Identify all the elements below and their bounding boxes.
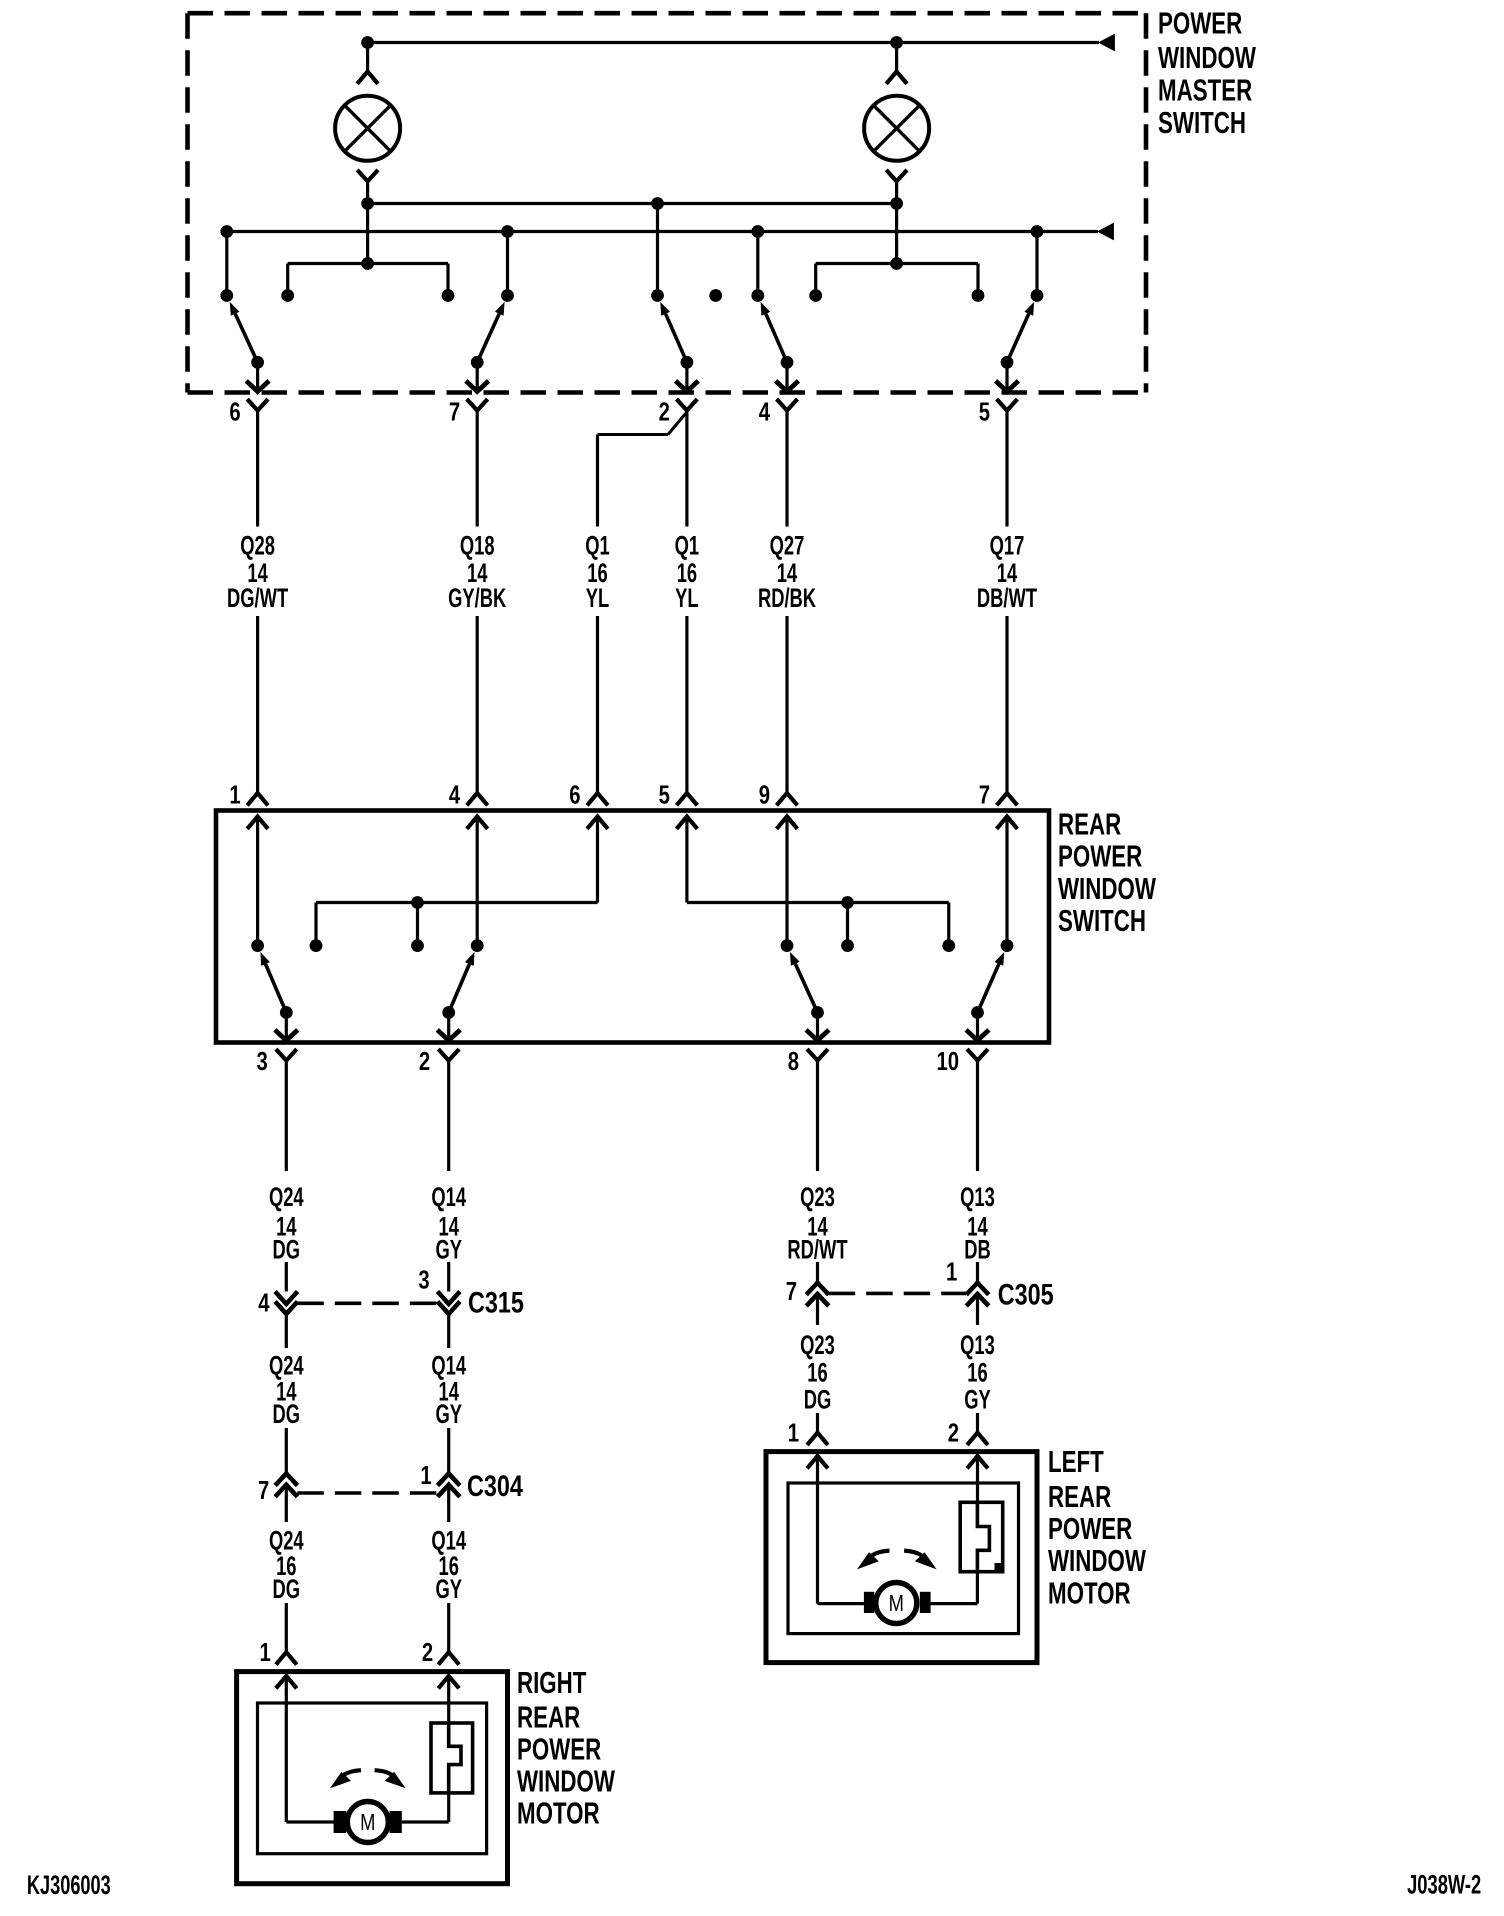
svg-text:9: 9 bbox=[759, 780, 770, 809]
svg-text:SWITCH: SWITCH bbox=[1058, 903, 1146, 937]
svg-text:SWITCH: SWITCH bbox=[1158, 105, 1246, 139]
wire Q23 14 RD/WT segment A bbox=[816, 1061, 819, 1172]
power window master switch box (dashed) bbox=[188, 13, 1147, 392]
svg-text:1: 1 bbox=[420, 1461, 431, 1490]
switch pivot dot pin 6 bbox=[251, 356, 264, 369]
rear switch contact dot x=417.5 bbox=[411, 939, 424, 952]
pin 5 connector inside rear switch bbox=[677, 817, 698, 829]
junction lamp1 bottom bbox=[361, 197, 374, 210]
svg-text:GY: GY bbox=[435, 1234, 462, 1264]
arrow common bus (right) bbox=[1097, 223, 1114, 241]
label Q27 14 RD/BK bbox=[758, 530, 816, 613]
right motor terminal right bbox=[390, 1811, 402, 1833]
contact dot x=448 bbox=[442, 289, 455, 302]
pin 8 exit arrow at rear box border bbox=[806, 1013, 829, 1041]
rear switch contact dot x=787 bbox=[781, 939, 794, 952]
wire Q1 16 YL upper segment bbox=[685, 411, 688, 527]
label Q28 14 DG/WT bbox=[227, 530, 288, 613]
pin 4 exit arrow at border bbox=[776, 362, 799, 391]
contact dot x=815.7 bbox=[809, 289, 822, 302]
pin 1 connector above left motor bbox=[807, 1433, 828, 1445]
svg-text:DG: DG bbox=[273, 1234, 301, 1264]
wire Q1 lower segment bbox=[685, 616, 688, 793]
wire Q14 segment D bbox=[447, 1428, 450, 1474]
svg-text:DB/WT: DB/WT bbox=[977, 583, 1037, 613]
left motor rotation arrows bbox=[857, 1551, 937, 1570]
svg-text:M: M bbox=[360, 1810, 375, 1836]
svg-text:REAR: REAR bbox=[517, 1700, 580, 1734]
rear power window switch box bbox=[216, 811, 1049, 1043]
junction mid rail bbox=[651, 197, 664, 210]
pin 4 connector below border bbox=[777, 399, 798, 410]
connector C304 left half (pin 7) bbox=[275, 1474, 297, 1497]
svg-text:Q13: Q13 bbox=[960, 1329, 995, 1359]
rear switch contact dot x=257.6 bbox=[251, 939, 264, 952]
pin 6 exit arrow at border bbox=[246, 362, 269, 391]
switch blade pin 7 bbox=[477, 302, 504, 362]
pin 10 exit arrow at rear box border bbox=[966, 1013, 989, 1041]
switch pivot dot pin 2 bbox=[681, 356, 694, 369]
svg-text:Q18: Q18 bbox=[460, 530, 495, 560]
label LEFT REAR POWER WINDOW MOTOR bbox=[1048, 1444, 1146, 1610]
motor M1 (right rear) bbox=[347, 1802, 388, 1843]
pin 5 connector above rear switch bbox=[677, 793, 698, 805]
wire pin5 rail right bbox=[687, 817, 949, 946]
wire pin1 to contact bbox=[256, 817, 259, 946]
svg-text:MASTER: MASTER bbox=[1158, 73, 1252, 107]
pin 10 connector below rear box bbox=[967, 1049, 988, 1060]
wire Q17 14 DB/WT upper segment bbox=[1005, 411, 1008, 527]
pin 2 exit arrow at border bbox=[676, 362, 699, 391]
svg-text:WINDOW: WINDOW bbox=[1158, 41, 1256, 75]
contact dot x=978 bbox=[972, 289, 985, 302]
label Q24 16 DG bbox=[269, 1525, 304, 1604]
svg-text:RIGHT: RIGHT bbox=[517, 1665, 587, 1699]
rear switch contact dot x=847.5 bbox=[841, 939, 854, 952]
connector C305 left half (pin 7) bbox=[806, 1283, 828, 1306]
svg-text:GY: GY bbox=[964, 1384, 991, 1414]
label Q17 14 DB/WT bbox=[977, 530, 1037, 613]
svg-text:WINDOW: WINDOW bbox=[1048, 1543, 1146, 1577]
wire Q23 16 DG segment C bbox=[816, 1295, 819, 1325]
wire Q14 14 GY segment A bbox=[447, 1061, 450, 1172]
connector C304 right half (pin 1) bbox=[438, 1474, 460, 1497]
connector C304 dashed link bbox=[297, 1491, 437, 1495]
svg-text:4: 4 bbox=[759, 397, 770, 426]
wire Q27 14 RD/BK upper segment bbox=[785, 411, 788, 527]
pin 1 connector above rear switch bbox=[247, 793, 268, 805]
contact dot x=657.5 bbox=[651, 289, 664, 302]
svg-text:C304: C304 bbox=[467, 1469, 523, 1502]
wire Q28 lower segment bbox=[256, 616, 259, 793]
svg-text:GY/BK: GY/BK bbox=[448, 583, 506, 613]
connector C315 left half (pin 4) bbox=[275, 1292, 297, 1314]
svg-text:DG: DG bbox=[273, 1574, 301, 1604]
svg-text:7: 7 bbox=[449, 397, 460, 426]
right motor terminal left bbox=[334, 1811, 347, 1833]
switch blade pin 6 bbox=[230, 302, 258, 362]
wire common bus bbox=[227, 230, 1098, 233]
svg-text:Q28: Q28 bbox=[240, 530, 275, 560]
pin 7 connector inside rear switch bbox=[997, 817, 1018, 829]
svg-text:6: 6 bbox=[569, 780, 580, 809]
svg-text:RD/BK: RD/BK bbox=[758, 583, 816, 613]
svg-text:2: 2 bbox=[422, 1638, 433, 1667]
pin 3 exit arrow at rear box border bbox=[275, 1013, 298, 1041]
svg-text:POWER: POWER bbox=[1048, 1511, 1132, 1545]
wire left motor pin2 to motor bbox=[931, 1456, 978, 1604]
left motor terminal left bbox=[864, 1592, 874, 1613]
svg-text:REAR: REAR bbox=[1048, 1479, 1111, 1513]
junction at lamp 1 top bbox=[361, 36, 374, 49]
svg-text:LEFT: LEFT bbox=[1048, 1444, 1104, 1478]
pin 7 connector below border bbox=[467, 399, 488, 410]
right motor inner housing bbox=[258, 1703, 487, 1854]
switch blade pin 5 bbox=[1007, 302, 1034, 362]
svg-text:DB: DB bbox=[964, 1234, 991, 1264]
svg-text:DG/WT: DG/WT bbox=[227, 583, 288, 613]
wire pin6 rail left bbox=[316, 817, 598, 946]
svg-text:M: M bbox=[889, 1591, 904, 1617]
wire pin7 to contact bbox=[1005, 817, 1008, 946]
label Q14 14 GY bbox=[431, 1182, 466, 1265]
switch pivot dot pin 7 bbox=[471, 356, 484, 369]
svg-text:MOTOR: MOTOR bbox=[1048, 1576, 1131, 1610]
junction rail left bbox=[411, 896, 424, 909]
lamp DS1 (illumination) bbox=[335, 96, 400, 161]
label Q13 16 GY bbox=[960, 1329, 995, 1414]
svg-text:Q27: Q27 bbox=[770, 530, 805, 560]
connector C315 right half (pin 3) bbox=[438, 1292, 460, 1314]
wire pin4 to contact bbox=[476, 817, 479, 946]
wire top supply bus bbox=[368, 41, 1099, 44]
pin 9 connector above rear switch bbox=[777, 793, 798, 805]
svg-text:WINDOW: WINDOW bbox=[1058, 871, 1156, 905]
svg-text:POWER: POWER bbox=[1158, 6, 1242, 40]
pin 1 connector inside rear switch bbox=[247, 817, 268, 829]
rear switch blade pin 10 bbox=[978, 952, 1005, 1013]
svg-text:POWER: POWER bbox=[1058, 839, 1142, 873]
wire Q23 segment B bbox=[816, 1262, 819, 1283]
wire Q13 16 GY segment C bbox=[976, 1295, 979, 1325]
pin 9 connector inside rear switch bbox=[777, 817, 798, 829]
svg-text:4: 4 bbox=[258, 1288, 269, 1317]
wire Q18 14 GY/BK upper segment bbox=[476, 411, 479, 527]
svg-text:YL: YL bbox=[675, 583, 698, 613]
svg-text:GY: GY bbox=[435, 1399, 462, 1429]
wire Q14 14 GY segment C bbox=[447, 1312, 450, 1348]
wire Q27 lower segment bbox=[785, 616, 788, 793]
label Q1 16 YL bbox=[675, 530, 700, 613]
rear switch contact dot x=948.75 bbox=[942, 939, 955, 952]
pin 2 connector inside left motor bbox=[967, 1456, 988, 1468]
motor M2 (left rear) bbox=[876, 1583, 917, 1624]
wire Q1 lower segment bbox=[596, 616, 599, 793]
label Q23 16 DG bbox=[800, 1329, 835, 1414]
right motor circuit breaker bbox=[431, 1723, 473, 1793]
label REAR POWER WINDOW SWITCH bbox=[1058, 807, 1156, 938]
svg-text:8: 8 bbox=[788, 1047, 799, 1076]
pin 1 connector above right motor bbox=[276, 1652, 297, 1664]
wire bus dropper x=757.8 bbox=[756, 232, 759, 296]
wire Q23 segment D bbox=[816, 1413, 819, 1433]
wire lamp bottom rail bbox=[368, 202, 897, 205]
junction common bus x=757.8 bbox=[751, 225, 764, 238]
wire Q1 16 YL upper segment bbox=[596, 435, 599, 527]
wire Q28 14 DG/WT upper segment bbox=[256, 411, 259, 527]
pin 8 connector below rear box bbox=[807, 1049, 828, 1060]
wire left motor pin1 to motor bbox=[818, 1456, 865, 1604]
svg-text:KJ306003: KJ306003 bbox=[27, 1869, 111, 1900]
pin 2 connector above right motor bbox=[438, 1652, 459, 1664]
arrow to supply (right) bbox=[1098, 34, 1115, 52]
rear switch blade pin 2 bbox=[449, 952, 475, 1013]
wire lamp2 to contact tee bbox=[816, 204, 978, 296]
lamp DS2 (illumination) bbox=[864, 96, 929, 161]
lamp DS1 connector top bbox=[357, 43, 378, 84]
svg-text:1: 1 bbox=[788, 1418, 799, 1447]
pin 7 exit arrow at border bbox=[466, 362, 489, 391]
pin 3 connector below rear box bbox=[276, 1049, 297, 1060]
svg-text:Q24: Q24 bbox=[269, 1182, 304, 1212]
wire Q24 14 DG segment C bbox=[285, 1312, 288, 1348]
pin 6 connector below border bbox=[247, 399, 268, 410]
wire Q24 segment B bbox=[285, 1262, 288, 1292]
left rear power window motor box bbox=[766, 1452, 1037, 1663]
contact dot x=226.8 bbox=[220, 289, 233, 302]
contact dot x=757.8 bbox=[751, 289, 764, 302]
pin 6 connector above rear switch bbox=[587, 793, 608, 805]
label Q1 16 YL bbox=[585, 530, 610, 613]
wire right motor pin1 to motor bbox=[286, 1676, 334, 1822]
wire Q14 segment B bbox=[447, 1262, 450, 1292]
svg-text:2: 2 bbox=[948, 1418, 959, 1447]
junction rail right bbox=[841, 896, 854, 909]
svg-text:7: 7 bbox=[979, 780, 990, 809]
switch blade pin 4 bbox=[761, 302, 787, 362]
lamp DS2 connector top bbox=[886, 43, 907, 84]
wire Q13 14 DB segment A bbox=[976, 1061, 979, 1172]
rear switch contact dot x=1007 bbox=[1001, 939, 1014, 952]
wire bus dropper x=226.8 bbox=[225, 232, 228, 296]
right rear power window motor box bbox=[237, 1672, 508, 1884]
svg-text:6: 6 bbox=[229, 397, 240, 426]
connector C305 right half (pin 1) bbox=[966, 1283, 988, 1306]
wire Q14 segment F bbox=[447, 1603, 450, 1652]
svg-text:Q14: Q14 bbox=[431, 1182, 466, 1212]
pin 2 connector above left motor bbox=[967, 1433, 988, 1445]
label Q24 14 DG bbox=[269, 1182, 304, 1265]
svg-text:3: 3 bbox=[418, 1265, 429, 1294]
wire bus dropper x=507.5 bbox=[506, 232, 509, 296]
svg-text:Q23: Q23 bbox=[800, 1329, 835, 1359]
label Q14 16 GY bbox=[431, 1525, 466, 1604]
wire Q24 16 DG segment E bbox=[285, 1486, 288, 1522]
svg-text:DG: DG bbox=[804, 1384, 832, 1414]
junction at lamp 2 top bbox=[890, 36, 903, 49]
svg-text:3: 3 bbox=[257, 1047, 268, 1076]
svg-text:2: 2 bbox=[659, 397, 670, 426]
wire rail dropper x=657.5 bbox=[656, 204, 659, 296]
rear switch blade pin 3 bbox=[260, 952, 286, 1013]
rear switch contact dot x=477.2 bbox=[471, 939, 484, 952]
svg-text:MOTOR: MOTOR bbox=[517, 1796, 600, 1830]
wire Q13 segment D bbox=[976, 1413, 979, 1433]
junction lamp2 bottom bbox=[890, 197, 903, 210]
pin 6 connector inside rear switch bbox=[587, 817, 608, 829]
svg-text:5: 5 bbox=[659, 780, 670, 809]
junction tee right center bbox=[890, 257, 903, 270]
pin 7 connector above rear switch bbox=[997, 793, 1018, 805]
svg-text:Q1: Q1 bbox=[585, 530, 610, 560]
wire right motor pin2 to motor bbox=[402, 1676, 449, 1822]
wire Q14 16 GY segment E bbox=[447, 1486, 450, 1522]
label Q24 14 DG (below C315) bbox=[269, 1350, 304, 1429]
svg-text:5: 5 bbox=[979, 397, 990, 426]
label Q13 14 DB bbox=[960, 1182, 995, 1265]
junction common bus x=507.5 bbox=[501, 225, 514, 238]
label POWER WINDOW MASTER SWITCH bbox=[1158, 6, 1256, 140]
svg-text:Q23: Q23 bbox=[800, 1182, 835, 1212]
rear switch pivot dot pin 10 bbox=[971, 1006, 984, 1019]
pin 2 connector below rear box bbox=[438, 1049, 459, 1060]
connector C315 dashed link bbox=[297, 1302, 437, 1306]
left motor terminal right bbox=[920, 1592, 931, 1613]
switch blade pin 2 bbox=[660, 302, 687, 362]
left motor circuit breaker bbox=[960, 1502, 1003, 1571]
label Q18 14 GY/BK bbox=[448, 530, 506, 613]
wire Q17 lower segment bbox=[1005, 616, 1008, 793]
svg-text:Q13: Q13 bbox=[960, 1182, 995, 1212]
svg-text:J038W-2: J038W-2 bbox=[1407, 1869, 1481, 1899]
label Q23 14 RD/WT bbox=[787, 1182, 847, 1265]
wire rail left dropper bbox=[416, 903, 419, 946]
junction common bus x=226.8 bbox=[220, 225, 233, 238]
svg-text:WINDOW: WINDOW bbox=[517, 1764, 615, 1798]
pin 1 connector inside right motor bbox=[276, 1676, 297, 1688]
svg-text:C315: C315 bbox=[468, 1286, 524, 1319]
svg-text:REAR: REAR bbox=[1058, 807, 1121, 841]
lamp DS1 connector bottom bbox=[357, 170, 378, 204]
svg-text:Q17: Q17 bbox=[990, 530, 1025, 560]
svg-text:1: 1 bbox=[946, 1257, 957, 1286]
right motor rotation arrows bbox=[330, 1770, 406, 1788]
contact dot x=1037 bbox=[1031, 289, 1044, 302]
svg-text:POWER: POWER bbox=[517, 1732, 601, 1766]
svg-text:4: 4 bbox=[449, 780, 460, 809]
contact dot x=287.7 bbox=[281, 289, 294, 302]
svg-text:DG: DG bbox=[273, 1399, 301, 1429]
wire Q24 segment F bbox=[285, 1603, 288, 1652]
svg-text:7: 7 bbox=[786, 1277, 797, 1306]
switch pivot dot pin 5 bbox=[1001, 356, 1014, 369]
pin 2 connector inside right motor bbox=[438, 1676, 459, 1688]
rear switch pivot dot pin 2 bbox=[442, 1006, 455, 1019]
left motor inner housing bbox=[788, 1483, 1019, 1634]
svg-text:Q1: Q1 bbox=[675, 530, 700, 560]
svg-text:10: 10 bbox=[936, 1047, 959, 1076]
pin 2 connector below border bbox=[677, 399, 698, 410]
contact dot x=715.7 bbox=[709, 289, 722, 302]
rear switch contact dot x=316 bbox=[310, 939, 323, 952]
lamp DS2 connector bottom bbox=[886, 170, 907, 204]
wire bus dropper x=1037 bbox=[1035, 232, 1038, 296]
wire Q13 segment B bbox=[976, 1262, 979, 1283]
rear switch blade pin 8 bbox=[790, 952, 818, 1013]
junction tee left center bbox=[361, 257, 374, 270]
wire Q18 lower segment bbox=[476, 616, 479, 793]
svg-text:GY: GY bbox=[435, 1574, 462, 1604]
switch pivot dot pin 4 bbox=[781, 356, 794, 369]
wire rail right dropper bbox=[846, 903, 849, 946]
wire lamp1 to contact tee bbox=[288, 204, 448, 296]
svg-text:1: 1 bbox=[260, 1638, 271, 1667]
svg-text:C305: C305 bbox=[998, 1278, 1054, 1311]
rear switch pivot dot pin 3 bbox=[280, 1006, 293, 1019]
contact dot x=507.5 bbox=[501, 289, 514, 302]
svg-text:7: 7 bbox=[258, 1476, 269, 1505]
pin 1 connector inside left motor bbox=[807, 1456, 828, 1468]
svg-text:2: 2 bbox=[419, 1047, 430, 1076]
label RIGHT REAR POWER WINDOW MOTOR bbox=[517, 1665, 615, 1830]
svg-text:1: 1 bbox=[229, 780, 240, 809]
pin 2 exit arrow at rear box border bbox=[437, 1013, 460, 1041]
wire jog from pin 2 to second Q1 bbox=[598, 412, 687, 435]
wire Q24 14 DG segment A bbox=[285, 1061, 288, 1172]
wire Q24 segment D bbox=[285, 1428, 288, 1474]
svg-text:YL: YL bbox=[586, 583, 609, 613]
pin 4 connector inside rear switch bbox=[467, 817, 488, 829]
rear switch pivot dot pin 8 bbox=[811, 1006, 824, 1019]
pin 5 connector below border bbox=[997, 399, 1018, 410]
pin 5 exit arrow at border bbox=[996, 362, 1019, 391]
pin 4 connector above rear switch bbox=[467, 793, 488, 805]
connector C305 dashed link bbox=[829, 1292, 966, 1296]
wire pin9 to contact bbox=[785, 817, 788, 946]
svg-text:RD/WT: RD/WT bbox=[787, 1234, 847, 1264]
label Q14 14 GY (below C315) bbox=[431, 1350, 466, 1429]
junction common bus x=1037 bbox=[1031, 225, 1044, 238]
